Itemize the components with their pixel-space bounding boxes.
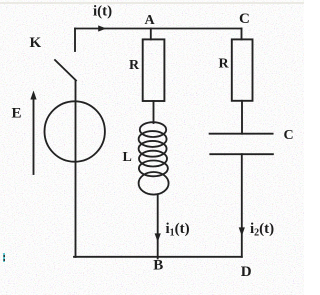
arrowhead i1 down (155, 233, 161, 242)
resistor R1 body (143, 39, 165, 101)
svg-text:i1(t): i1(t) (166, 221, 190, 239)
resistor R2 body (232, 39, 253, 100)
svg-text:A: A (145, 13, 156, 28)
inductor L coil (139, 122, 169, 194)
svg-text:i(t): i(t) (93, 4, 112, 20)
svg-text:R: R (219, 57, 230, 72)
capacitor C top plate (210, 133, 273, 135)
wire left vertical lower through source (75, 81, 77, 258)
svg-text:R: R (129, 58, 140, 73)
source E circle (44, 101, 104, 161)
wire R2 to capacitor (241, 101, 243, 134)
svg-text:K: K (30, 35, 42, 51)
svg-text:C: C (239, 11, 250, 27)
arrowhead i2 down (239, 227, 245, 236)
wire top horizontal (75, 28, 242, 30)
wire capacitor to D (241, 154, 243, 257)
arrowhead i(t) right (98, 25, 106, 31)
svg-text:E: E (12, 106, 22, 122)
svg-text:D: D (241, 264, 252, 280)
switch K blade (55, 60, 76, 81)
arrow E line (33, 95, 35, 174)
svg-text:B: B (153, 258, 163, 274)
svg-text:L: L (123, 150, 132, 165)
capacitor C bottom plate (210, 153, 273, 155)
wire R1 to L (153, 101, 155, 123)
node C corner stub wire (241, 29, 243, 40)
node A stub wire (150, 29, 152, 40)
arrowhead E up (30, 91, 36, 100)
scan mark left edge (3, 253, 5, 262)
wire bottom horizontal B-D (74, 256, 242, 258)
wire left vertical upper (to switch) (74, 29, 76, 52)
svg-text:i2(t): i2(t) (250, 221, 274, 239)
scan streak top edge (0, 2, 304, 4)
svg-text:C: C (284, 128, 294, 143)
wire L to B (157, 195, 159, 259)
